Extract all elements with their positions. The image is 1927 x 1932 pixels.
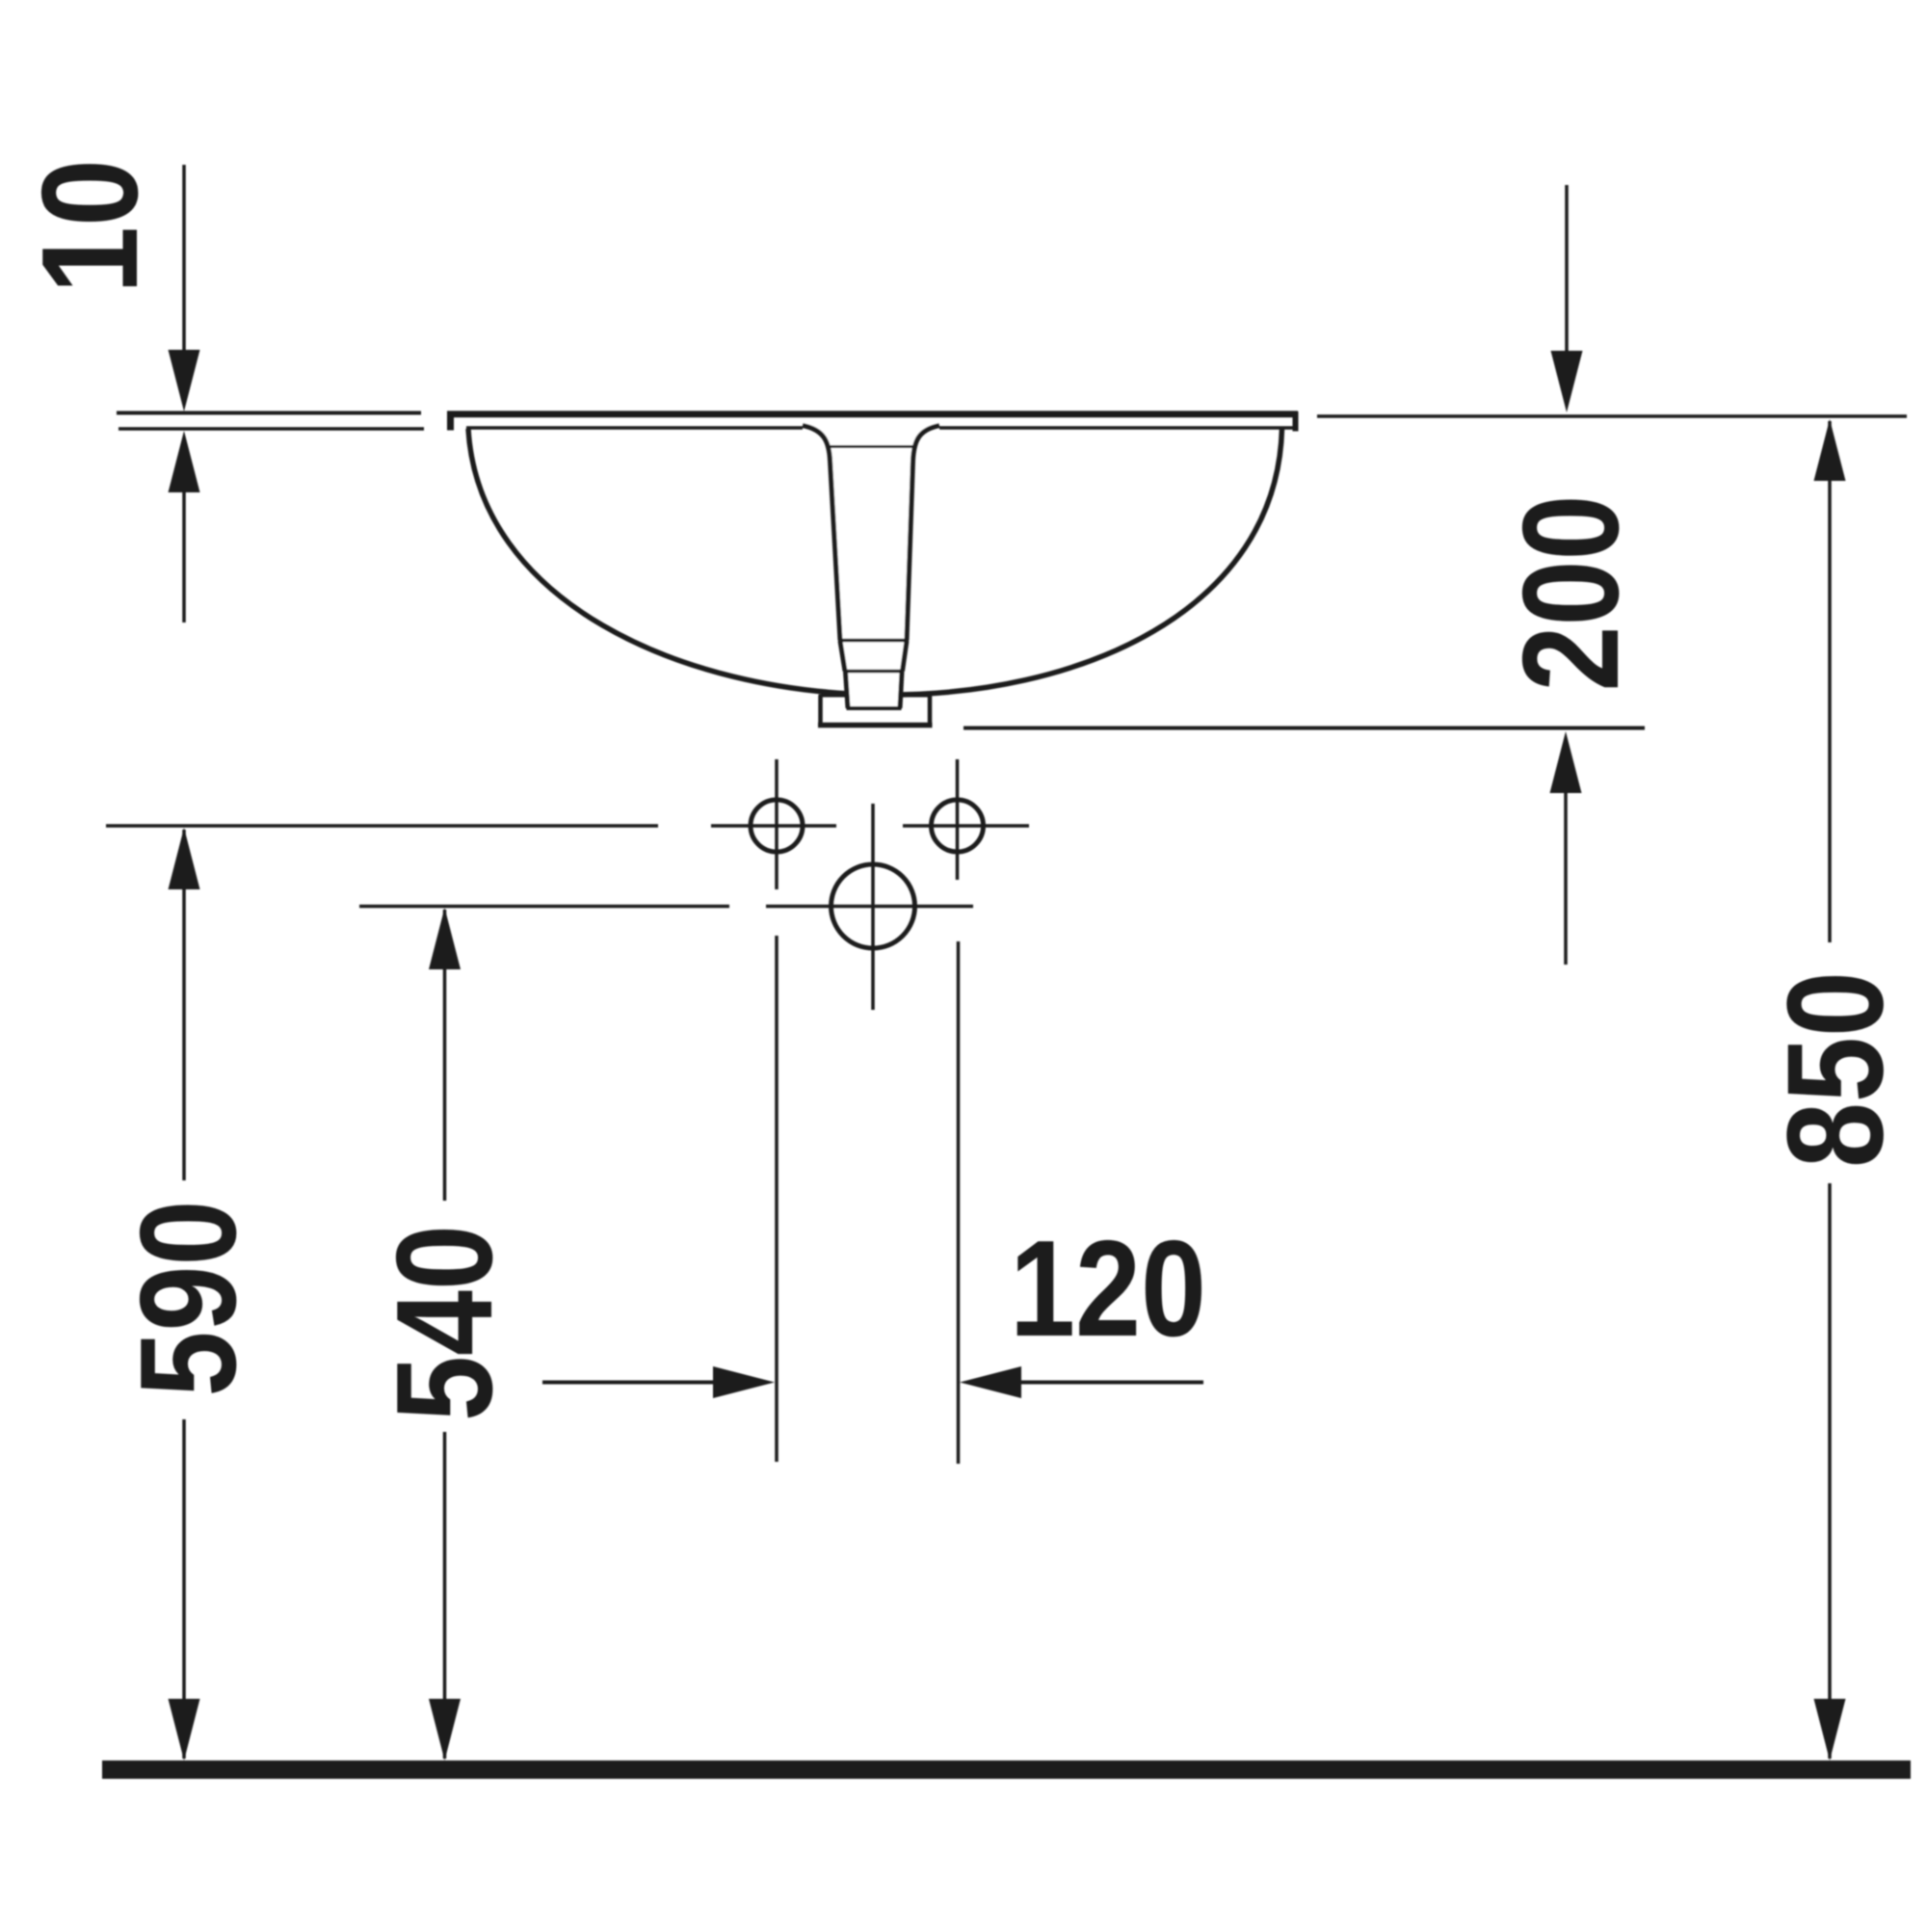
floor line: [102, 1760, 1911, 1779]
faucet holes centerline y=857: [106, 824, 658, 828]
overflow funnel (white fill masks bowl arc): [803, 422, 939, 710]
svg-text:540: 540: [368, 1225, 521, 1421]
small hole left vertical centerline: [775, 759, 779, 889]
countertop top line: [117, 411, 421, 415]
extension vertical below left hole: [775, 936, 779, 1462]
arrow dim540 down: [429, 1699, 461, 1760]
svg-text:120: 120: [1010, 1212, 1206, 1365]
svg-text:10: 10: [13, 159, 167, 294]
overflow slot line: [830, 445, 913, 448]
drain-bottom level extension line (right): [963, 727, 1645, 730]
basin rim top line: [447, 410, 1298, 417]
large faucet hole: [832, 864, 915, 948]
arrow dim590 up: [169, 828, 200, 889]
dim 540 line upper: [443, 910, 447, 1201]
drain trap box: [818, 696, 933, 726]
dim 850 line lower: [1828, 1183, 1832, 1759]
dim 200 line upper: [1565, 185, 1569, 355]
dim 10: upper line: [182, 165, 186, 357]
arrow dim850 down: [1814, 1699, 1846, 1760]
rim underside right segment: [939, 426, 1293, 430]
small faucet hole left: [751, 800, 803, 852]
extension vertical below right hole: [957, 941, 961, 1464]
dim 200 line lower: [1564, 792, 1568, 965]
countertop level extension line (right): [1317, 414, 1907, 418]
dim 10: lower line: [182, 487, 186, 622]
svg-text:850: 850: [1759, 971, 1913, 1168]
arrow dim120 right: [713, 1366, 775, 1398]
large hole vertical centerline: [871, 804, 875, 1010]
dim 120 left line: [542, 1381, 718, 1385]
svg-text:590: 590: [112, 1201, 265, 1397]
rim left end cap: [447, 411, 454, 431]
washbasin bowl inner curve: [468, 429, 1282, 695]
svg-text:200: 200: [1494, 495, 1648, 692]
small hole right vertical centerline: [956, 759, 960, 880]
rim right end cap: [1293, 411, 1299, 432]
funnel right wall: [907, 426, 939, 641]
funnel band line 2: [844, 670, 905, 674]
arrow dim590 down: [169, 1699, 200, 1760]
rim underside left segment: [466, 426, 803, 430]
arrow dim10 down: [169, 350, 200, 411]
arrow dim850 up: [1814, 419, 1846, 481]
large hole centerline y=940.5: [359, 905, 729, 909]
countertop bottom line: [119, 427, 424, 431]
arrow dim200 down: [1551, 351, 1583, 412]
funnel band line 1: [838, 639, 909, 643]
dim 590 line upper: [182, 830, 186, 1180]
dim 540 line lower: [443, 1432, 447, 1759]
dim 590 line lower: [182, 1419, 186, 1759]
funnel left wall: [803, 426, 840, 641]
arrow dim540 up: [429, 908, 461, 969]
dim 120 right line: [1017, 1381, 1203, 1385]
small faucet hole right: [932, 800, 984, 852]
arrow dim120 left: [960, 1366, 1021, 1398]
drain tube bottom line: [847, 706, 902, 710]
dim 850 line upper: [1828, 421, 1832, 942]
arrow dim200 up: [1550, 731, 1582, 793]
arrow dim10 up: [169, 431, 200, 492]
